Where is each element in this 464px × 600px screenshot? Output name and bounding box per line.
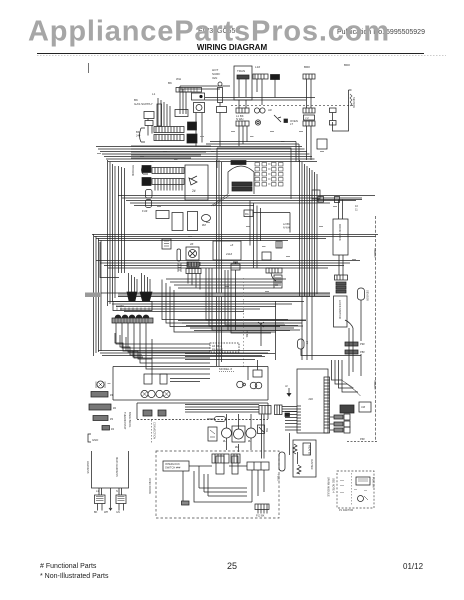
svg-text:N WH: N WH [283,227,290,230]
narrow vertical box NV1 [157,104,162,126]
svg-text:INTERLOCK: INTERLOCK [165,462,180,466]
control board U1 [297,369,328,433]
label under fuse [142,209,148,213]
pad under DL1 [335,275,348,280]
plug blob row4 [142,178,151,186]
T1 pad [237,75,249,79]
cell box CB9 [247,462,269,470]
dashed divider in spark box [351,473,353,506]
wire: top bundle into board [332,360,359,392]
capacitor box C1 [172,213,183,231]
label A3 [268,108,272,112]
terminal hatch bar [112,318,153,323]
wire: bus E horizontals [108,302,304,312]
pad P6 under transformer [236,108,249,113]
wire: interlock link [189,466,212,488]
svg-text:#4: #4 [111,427,115,431]
label right of PC3 [305,341,309,345]
svg-text:LT: LT [290,122,293,126]
svg-text:CONVECTION: CONVECTION [153,422,157,439]
svg-text:WIRING DIAGRAM: WIRING DIAGRAM [197,43,268,52]
svg-text:THERMOSTAT: THERMOSTAT [123,412,127,430]
wire: drop to DL1 [339,200,343,220]
transformer T1 big box [234,66,252,100]
label right of squiggle [352,97,356,108]
resistor assembly box [293,440,316,477]
relay RL1 in box K [144,374,152,384]
svg-text:211#: 211# [226,252,232,256]
door lock box DL1 [333,219,348,255]
svg-text:P8#: P8# [360,350,365,354]
svg-text:SEE NOTE 4: SEE NOTE 4 [332,478,335,493]
svg-text:#L: #L [248,439,252,443]
svg-text:#M: #M [235,445,240,449]
svg-text:2#: 2# [192,189,196,193]
wire: row2 pad+box [330,423,334,425]
blob on feed [285,413,290,417]
wire: left inner drop [182,471,184,501]
resistor R1 box [303,443,311,455]
wire: shield bottom dashed corner [347,441,378,443]
wire: horizontal pair y97-100 [205,98,315,101]
svg-text:1N4##: 1N4## [116,304,124,308]
svg-text:LOCK MOTOR: LOCK MOTOR [338,300,342,319]
title rule [37,53,424,55]
bracket resistor squiggle [350,94,352,106]
svg-text:HARNESS: HARNESS [86,461,90,474]
svg-text:25: 25 [227,561,237,571]
wire: P3 twin drop [307,79,312,108]
svg-text:#1: #1 [110,393,114,397]
label above P2 [255,65,260,69]
tiny marks in spark box [340,481,367,493]
surface burner box B1 [185,165,208,200]
svg-text:SHIELD: SHIELD [373,380,377,389]
svg-text:SENSOR: SENSOR [366,290,370,301]
dome hatch row1 [232,182,252,186]
pins above CB5 [188,262,200,266]
svg-text:P5 BK: P5 BK [245,330,249,338]
svg-text:BK: BK [136,130,140,134]
pill connector PC1 [215,417,226,422]
wire: right vertical bundle [300,160,318,360]
svg-text:RG: RG [245,213,249,216]
connector pad P2 [253,74,268,79]
T1 internal wires [239,79,246,97]
wire: igniter drop [219,103,221,147]
terminal box TB2 [113,302,152,311]
tiny annotation marks [97,132,356,292]
label under motor [202,223,207,227]
wire: terminal fan staircase to oven box [116,333,210,374]
svg-text:P1 IGNITOR: P1 IGNITOR [339,509,353,512]
oven burner dome M1 [228,166,254,194]
grid side pins [268,164,271,184]
hatch bar under fan [187,262,199,267]
label 24 above fan [190,242,194,246]
svg-text:WH: WH [176,77,181,81]
dashed label box LB1 [210,343,239,352]
wire: left margin tick [88,63,90,73]
plug drop labels [94,511,120,514]
wire: bracket to pads [332,113,334,126]
svg-text:PLUG: PLUG [277,474,281,481]
rotated label outside dashed box [148,478,152,494]
dashed divider with label [151,420,153,444]
svg-text:MODULE: MODULE [131,165,135,176]
svg-text:MAIN HARNESS: MAIN HARNESS [115,457,119,477]
wire: bus C horizontals [118,196,375,206]
tall box TL2 [232,456,238,474]
wire: CB6 curve down [271,273,276,281]
wire: outer left verticals VERT-L2 [94,234,102,356]
grommet pair G1 [254,108,259,113]
wire: blob BK drop [274,80,276,98]
svg-text:BK: BK [168,81,172,85]
ignition harness bundle a [129,273,138,292]
rotated label in U-box mid [115,457,119,477]
connector P10 [175,110,188,117]
svg-text:BK: BK [94,511,98,514]
svg-text:WH: WH [104,511,108,514]
connector CB8 [231,454,240,463]
label rows [236,114,244,121]
wire: bus C right corner drops [250,201,261,269]
svg-text:SENSOR: SENSOR [352,97,356,108]
rotated label right of spark box [372,477,375,488]
wire: board bottom drop [290,433,298,464]
tall box TL1 [216,456,224,474]
DSI connector bar row1 [154,127,184,133]
pad K2b [158,410,166,416]
junction box J2 [304,115,315,120]
small box right bundle b [312,190,320,199]
wire: right drops to board [262,415,265,459]
wire: bundle to plugs [185,405,259,413]
wire: link to DL1 row [317,199,362,201]
label L3 (heater) [212,68,220,80]
wire: SW2 vertical [260,327,262,346]
pins below CB10 [258,510,267,514]
wire: U-box stubs [99,488,122,504]
label shield lower [373,380,377,389]
wire: dark bus (gray band) [118,293,330,297]
connector BC3 [276,241,282,248]
fan symbol circle-x [189,250,197,258]
wire: gray stub left [85,293,101,298]
hatch pad in dashed box [182,501,190,505]
ladder under pill [178,263,181,272]
grommet pair GK4 [250,382,257,389]
thermal fuse TF1 [231,264,240,270]
legend bar LG1 [91,392,108,398]
wire: twin verticals to board [349,328,361,376]
small box right bundle a [317,139,327,149]
label right of hatch bars [360,342,365,354]
wire: RG1 link right [253,213,290,233]
pad P5 [303,121,315,126]
wire: center step verticals [206,268,306,333]
wire: bottom staircase right [178,321,306,331]
arrow mid stub [109,504,112,510]
labels under circles [223,439,252,449]
ignitor grid block 2 [272,163,284,187]
terminal semicircle row [115,315,149,318]
pad P7 [236,121,249,126]
ignition harness bundle b [142,273,151,292]
wire: left vertical bundle VERT-L1 [108,160,125,306]
label near link [283,223,290,230]
grommet pair GK1 [141,390,148,397]
label above P3 [304,65,310,69]
wire: bus B long horizontals [92,235,378,241]
lock motor box DL2 [334,296,348,327]
inline connector IC1 [318,197,324,203]
connector bar row3 [152,168,184,174]
svg-text:SWITCH ###: SWITCH ### [165,466,181,470]
svg-text:P##: P## [360,437,365,441]
valve V1 with coil circle [194,103,205,113]
label L1 [134,98,153,106]
svg-text:L1#: L1# [255,65,260,69]
rotated labels left of spark box [327,477,330,497]
spark component a [356,477,370,485]
svg-text:DOOR LOCK: DOOR LOCK [338,224,342,241]
wire: pins down from row4 [155,185,182,191]
small box M2 [162,239,171,249]
wire: nested steps inside dashed box [194,470,264,502]
svg-text:UI#: UI# [361,405,366,409]
rotated label in U-box left [86,461,90,474]
wire: dashed-box right interior [229,465,247,467]
label above dashed corner [360,437,365,441]
box K2 below [137,403,268,419]
wire: bus group A horizontals stepped [96,142,317,162]
plug pad PL1 [259,406,271,415]
connector bar atop K1 [176,88,202,93]
svg-text:A#: A# [268,108,272,112]
wire: bundle bends to right [342,380,361,396]
pill connector PC2 [279,452,285,471]
lamp motor circle M-a [222,428,232,438]
label near corner [136,130,141,138]
inline connector IC2 [335,197,340,203]
wire: SN1 drop [360,300,362,341]
plug pad PL2 [275,405,283,415]
connector pad P3 [303,74,315,79]
svg-text:SHIELD: SHIELD [373,248,377,257]
dashed sense line [243,278,245,368]
svg-text:P9#: P9# [360,342,365,346]
spark module SM1 lower box [145,121,153,126]
spark module SM1 [144,112,154,119]
pad P4 [303,108,315,113]
stub labels [96,490,118,493]
black blob BK [271,75,280,80]
igniter IG1 (top circle) [218,82,222,86]
wire: left pin feeds [285,412,297,431]
connector pair top CB7 [212,454,229,463]
ribbon hatch block [340,405,354,413]
U1 right pin ladder [324,377,330,433]
wire: DL1 twin drop [339,255,343,275]
bottom-center box BC1 [213,241,241,260]
rotated label col B [128,412,132,428]
wire: sm1 drops [148,119,152,136]
regulator box RG1 [244,210,253,217]
plug blob row3 [142,166,151,173]
grommet pair G2 [255,120,260,125]
label rotated left of rows [131,165,135,176]
label right of switch [290,119,298,126]
wire: staircase bundle mid-right [166,279,286,288]
wire: plug drops [98,504,124,511]
pad K2a [143,410,152,416]
svg-text:24#: 24# [136,134,141,138]
svg-text:#3: #3 [110,417,114,421]
connector bottom CB10 [255,504,269,510]
lamp motor circle M-b [234,429,244,439]
svg-text:FU#: FU# [142,209,148,213]
legend bar LG4 [102,426,110,431]
wire: staircase corners down-right [162,280,288,333]
wire: bus F horizontals [98,351,270,356]
wire: bus A corners into right bundle [296,142,299,163]
DSI connector bar row2 [154,135,184,141]
svg-text:BR#: BR# [304,65,310,69]
wire: left drops from T1 area [241,79,262,105]
DSI plug blob row2 [187,134,197,143]
grommet pair GK2 [156,390,163,397]
wire: fanout under terminal bar [116,323,146,338]
wire: center dashed line [231,105,355,107]
wire: PC1 lead [207,418,215,420]
harness U-box left [92,451,129,488]
svg-text:OVEN DOOR: OVEN DOOR [148,478,152,494]
label L2 [152,92,156,96]
relay K1 [192,93,205,100]
wire: K box internals [170,360,258,382]
switch SW9 diagonal [274,115,281,122]
legend grommet [97,381,104,388]
ignitor grid (2-col pin matrix) [255,163,267,187]
relay RL3 [253,370,262,377]
wire: top feeds into cluster [180,86,230,92]
legend bracket [88,434,91,442]
interlock label box [163,461,189,471]
probe jack box PJ1 [274,275,282,288]
spark component b [358,496,364,502]
svg-text:GND: GND [92,438,98,442]
svg-text:SW: SW [265,428,268,433]
motor oval MT1 [202,215,211,222]
wire: row1 pad+box [330,416,334,418]
relay RL2 in box K [160,374,167,384]
capacitor box C2 [188,212,198,231]
svg-text:P6 WH-1: P6 WH-1 [212,348,224,352]
bracket pad a [330,108,337,113]
wire: shield vertical [375,216,377,442]
svg-text:N WH: N WH [236,117,243,121]
label tiny above module [168,77,181,85]
svg-text:GN: GN [116,511,120,514]
narrow pill left of fan [177,249,181,261]
hatch bar HB2 [345,350,358,354]
connector stack CS1 [336,282,346,285]
blob small [284,119,288,123]
svg-text:L1: L1 [152,92,156,96]
label MODEL in box K [219,367,232,371]
relay box K2 [156,211,169,219]
DSI plug blob row1 [188,122,197,130]
rotated label col A [123,412,127,430]
svg-text:#2: #2 [113,406,117,410]
svg-text:N: N [116,490,118,493]
sensor pill SN1 [358,288,365,300]
connector bar CB6 [266,268,282,273]
dashed box oven-light [156,451,279,518]
svg-text:+#: +# [230,243,234,247]
zigzag in assembly [297,465,301,474]
legend bar LG2 [89,404,111,410]
dashed box spark [337,471,374,508]
grommet pair GK3 [237,381,244,388]
wire: bundle pads to board [282,407,297,412]
wire: vertical x275 [275,301,277,360]
wire: bus D horizontals [96,261,360,269]
U1 left pin hatch [297,406,301,430]
plug X2 [116,495,126,504]
wire: central spine verticals [217,160,222,366]
igniter IG1 body [218,88,223,103]
wire: bottom horizontals under LB1 [185,354,275,360]
dome hatch row2 [232,187,252,191]
svg-text:MODEL #: MODEL # [219,367,232,371]
hatch bar HB1 [345,342,358,346]
svg-text:SPARK MODULE: SPARK MODULE [327,477,330,497]
label 24 [192,189,196,193]
svg-text:#M: #M [202,223,207,227]
wire: drops to circles [227,414,252,429]
junction arrow J2 [287,388,291,396]
fuse F2 pill [146,200,152,208]
svg-text:J1#: J1# [308,397,313,401]
wire: row3 pad+box [330,429,334,431]
center module outer box [217,148,291,199]
spark plug boss row1 [142,166,149,174]
svg-text:# Functional Parts: # Functional Parts [40,563,97,570]
wire: diagonal crossing [211,194,230,206]
svg-text:P160 SW: P160 SW [372,477,375,488]
label shield upper [373,248,377,257]
box around M-b [232,426,245,442]
small box SB2 [359,402,371,412]
wire: DL2 exit curve [345,320,353,328]
resistor R1 zigzag [293,444,297,454]
wire: P5 drops [307,126,312,160]
svg-text:GAS SUPPLY: GAS SUPPLY [134,102,153,106]
svg-text:J 2: J 2 [305,116,309,120]
svg-text:IGN: IGN [212,76,217,80]
fan box FB1 [186,247,199,260]
rotated label in assembly [310,459,314,470]
small box BC2 [262,252,271,260]
T1 label [237,69,245,73]
wire: T1 drop wires [239,100,247,146]
svg-text:#L: #L [223,439,227,443]
DSI module outline [140,128,146,142]
side box SB1 [208,427,217,441]
